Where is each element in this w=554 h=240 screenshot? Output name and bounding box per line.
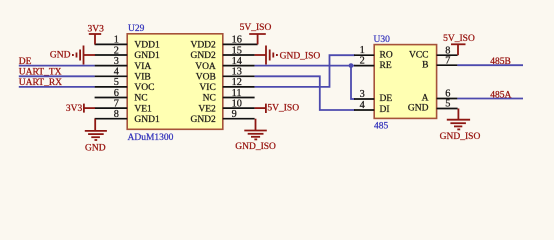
svg-text:VCC: VCC (409, 50, 429, 60)
svg-text:GND_ISO: GND_ISO (235, 142, 276, 152)
ground GND_ISO (U30 pin 5) (447, 109, 470, 130)
svg-text:5V_ISO: 5V_ISO (443, 34, 475, 44)
U29 pin 8 stub (95, 118, 128, 120)
U30 left pin numbers (360, 45, 365, 111)
svg-text:NC: NC (134, 94, 147, 104)
svg-text:VIA: VIA (134, 62, 151, 72)
svg-text:15: 15 (232, 45, 242, 56)
wire UART_TX to pin 4 (19, 75, 95, 77)
svg-text:7: 7 (114, 98, 119, 109)
power 5V_ISO (pin 10, sideways) (255, 104, 266, 113)
U29 pin 14 stub (223, 65, 255, 67)
wire DE to pin 3 (19, 65, 95, 67)
U29 pin 2 stub (95, 54, 128, 56)
svg-text:2: 2 (360, 56, 365, 67)
svg-text:GND1: GND1 (134, 115, 160, 125)
svg-text:DE: DE (380, 94, 393, 104)
U29 left pin numbers 1-8 (114, 35, 119, 120)
U29 pin 3 stub (95, 65, 128, 67)
ground GND_ISO (rotated, pin 15) (255, 46, 277, 65)
svg-text:5: 5 (114, 77, 119, 88)
svg-text:12: 12 (232, 77, 242, 88)
svg-text:5: 5 (445, 99, 450, 110)
ground GND_ISO (pin 9, below) (244, 119, 266, 140)
U29 pin 13 stub (223, 75, 255, 77)
U29 right pin numbers 16-9 (232, 35, 242, 120)
power 3V3 (top left, pin 1) (89, 34, 101, 44)
svg-text:3: 3 (360, 89, 365, 100)
U29 pin 7 stub (95, 107, 128, 109)
svg-text:485: 485 (374, 121, 389, 131)
U29 pin 1 stub (95, 43, 128, 45)
U29 pin 10 stub (223, 107, 255, 109)
U29 pin 6 stub (95, 97, 128, 99)
U30 pin 2 stub (354, 65, 374, 67)
wire 485B (457, 64, 523, 66)
svg-text:16: 16 (232, 35, 242, 46)
svg-text:RE: RE (380, 61, 392, 71)
svg-text:GND: GND (85, 144, 106, 154)
svg-text:14: 14 (232, 56, 242, 67)
svg-text:VIB: VIB (134, 73, 150, 83)
wire branch RE/DE (351, 66, 355, 99)
svg-text:485B: 485B (490, 57, 511, 67)
U29 pin 11 stub (223, 97, 255, 99)
svg-text:5V_ISO: 5V_ISO (240, 23, 272, 33)
U29 pin 4 stub (95, 75, 128, 77)
svg-text:VOB: VOB (196, 73, 216, 83)
svg-text:6: 6 (114, 88, 119, 99)
svg-text:VOA: VOA (195, 62, 216, 72)
U29 pin 16 stub (223, 43, 258, 45)
svg-text:VOC: VOC (134, 83, 154, 93)
svg-text:8: 8 (114, 109, 119, 120)
svg-text:VDD2: VDD2 (190, 41, 216, 51)
svg-text:RO: RO (380, 50, 393, 60)
junction node RE/DE (349, 63, 354, 68)
svg-text:5V_ISO: 5V_ISO (267, 104, 299, 114)
IC U30 RS-485 transceiver body (374, 45, 436, 119)
svg-text:A: A (422, 94, 429, 104)
U29 left pin names (134, 41, 160, 125)
wire 485A (457, 98, 523, 100)
svg-text:9: 9 (232, 109, 237, 120)
svg-text:10: 10 (232, 98, 242, 109)
ground GND (rotated, pin 2) (73, 46, 95, 65)
svg-text:1: 1 (114, 35, 119, 46)
svg-text:GND2: GND2 (190, 115, 216, 125)
wire VIC pin12 to U30 RO (255, 55, 355, 87)
U29 pin 5 stub (95, 86, 128, 88)
svg-text:NC: NC (203, 94, 216, 104)
svg-text:7: 7 (445, 55, 450, 66)
svg-text:VDD1: VDD1 (134, 41, 160, 51)
svg-text:GND2: GND2 (190, 51, 216, 61)
IC U29 ADuM1300 digital isolator body (127, 34, 223, 130)
svg-text:GND1: GND1 (134, 51, 160, 61)
U30 pin 5 stub (437, 108, 458, 110)
U29 pin 12 stub (223, 86, 255, 88)
svg-text:485A: 485A (490, 90, 511, 100)
U30 right pin names VCC B A GND (408, 50, 429, 113)
U30 pin 4 stub (354, 109, 374, 111)
svg-text:13: 13 (232, 67, 242, 78)
svg-text:VE2: VE2 (198, 104, 216, 114)
U30 pin 7 stub (437, 64, 458, 66)
svg-text:U30: U30 (374, 35, 391, 45)
svg-text:4: 4 (114, 67, 119, 78)
svg-text:3V3: 3V3 (66, 104, 83, 114)
U29 pin 15 stub (223, 54, 255, 56)
svg-text:GND: GND (408, 104, 429, 114)
U29 pin 9 stub (223, 118, 255, 120)
svg-text:GND_ISO: GND_ISO (440, 132, 481, 142)
svg-text:3V3: 3V3 (88, 25, 105, 35)
U30 left pin names RO RE DE DI (380, 50, 393, 115)
svg-text:3: 3 (114, 56, 119, 67)
power 5V_ISO (U30 pin 8) (451, 44, 466, 55)
svg-text:VE1: VE1 (134, 104, 152, 114)
svg-text:11: 11 (232, 88, 242, 99)
U30 pin 1 stub (354, 54, 374, 56)
power 5V_ISO (pin 16) (249, 34, 266, 44)
svg-text:VIC: VIC (199, 83, 215, 93)
U30 right pin numbers (445, 45, 450, 109)
svg-text:U29: U29 (128, 24, 145, 34)
U30 pin 6 stub (437, 98, 458, 100)
ground GND (pin 8, below) (85, 119, 107, 140)
svg-text:DI: DI (380, 105, 390, 115)
svg-text:ADuM1300: ADuM1300 (128, 133, 174, 143)
U30 pin 8 stub (437, 54, 458, 56)
svg-text:GND: GND (50, 50, 71, 60)
svg-text:4: 4 (360, 100, 365, 111)
power 3V3 (pin 7, sideways) (84, 104, 95, 113)
svg-text:2: 2 (114, 45, 119, 56)
U30 pin 3 stub (354, 98, 374, 100)
svg-text:B: B (422, 60, 428, 70)
wire UART_RX to pin 5 (19, 86, 95, 88)
wire VOA pin14 to U30 RE (255, 65, 355, 67)
wire VOB pin13 to U30 DI (255, 76, 355, 110)
svg-text:GND_ISO: GND_ISO (280, 51, 321, 61)
U29 right pin names (190, 41, 216, 125)
